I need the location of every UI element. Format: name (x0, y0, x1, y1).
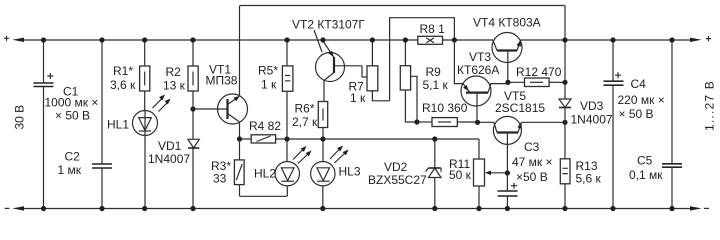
svg-text:5,6 к: 5,6 к (576, 172, 602, 186)
svg-text:13 к: 13 к (163, 79, 186, 93)
node VT5 base junction (475, 120, 480, 125)
node R9 R10 junction (414, 119, 419, 124)
svg-text:HL3: HL3 (339, 165, 361, 179)
node R7 top (370, 37, 375, 42)
wire emitter line y139 (240, 138, 480, 140)
wire top rail left (24, 39, 493, 41)
resistor R1 (110, 40, 150, 111)
capacitor C5 (629, 40, 682, 209)
output minus terminal (690, 206, 709, 210)
svg-text:R6*: R6* (295, 102, 315, 116)
svg-text:HL1: HL1 (107, 118, 129, 132)
node HL1 bottom (142, 206, 147, 211)
svg-text:3,6 к: 3,6 к (110, 78, 136, 92)
node C5 bottom (669, 206, 674, 211)
svg-text:BZX55C27: BZX55C27 (368, 173, 427, 187)
potentiometer R11 (449, 139, 507, 209)
node HL3 bottom (320, 206, 325, 211)
transistor VT1 (193, 6, 248, 140)
node VD2 top (432, 136, 437, 141)
resistor R8 (418, 22, 445, 44)
node C5 top (669, 37, 674, 42)
svg-text:C3: C3 (524, 140, 540, 154)
node VT2 emitter top (320, 37, 325, 42)
resistor R12 (508, 65, 565, 87)
svg-text:R12 470: R12 470 (516, 65, 562, 79)
svg-text:R8 1: R8 1 (420, 22, 446, 36)
svg-text:5,1 к: 5,1 к (423, 78, 449, 92)
node C1 bottom (41, 206, 46, 211)
resistor R4 (249, 119, 281, 143)
svg-text:1 мк: 1 мк (58, 163, 82, 177)
svg-text:1...27 В: 1...27 В (703, 80, 717, 131)
svg-text:33: 33 (213, 172, 227, 186)
node output column rail (562, 37, 567, 42)
zener diode VD2 (368, 139, 441, 209)
node VT1 collector junction (237, 136, 242, 141)
capacitor C4 (604, 40, 665, 209)
wire output column (564, 6, 566, 100)
node R5 top (284, 37, 289, 42)
svg-text:R10 360: R10 360 (422, 101, 468, 115)
node R12 right (562, 80, 567, 85)
node R1 top (142, 37, 147, 42)
node R13 bottom (562, 206, 567, 211)
wire R3 HL2 bottom link (240, 195, 288, 197)
node VD1 bottom (190, 206, 195, 211)
transistor VT4 (473, 16, 541, 83)
svg-text:МП38: МП38 (206, 74, 238, 88)
node HL2 top (284, 136, 289, 141)
svg-text:VT4 КТ803А: VT4 КТ803А (473, 16, 541, 30)
svg-text:1 к: 1 к (350, 91, 366, 105)
svg-text:VT2 КТ3107Г: VT2 КТ3107Г (292, 18, 365, 32)
svg-text:R5*: R5* (258, 64, 278, 78)
wire top link line (240, 5, 565, 7)
LED HL3 (311, 139, 361, 209)
svg-text:C4: C4 (631, 77, 647, 91)
resistor R7 (349, 40, 390, 105)
svg-text:1000 мк ×: 1000 мк × (45, 96, 99, 110)
capacitor C1 (34, 40, 99, 209)
svg-text:1N4007: 1N4007 (148, 152, 190, 166)
capacitor C3 (498, 140, 553, 209)
svg-text:R2: R2 (166, 65, 182, 79)
resistor R13 (560, 159, 601, 209)
transistor VT2 (292, 18, 367, 102)
svg-text:2SC1815: 2SC1815 (495, 101, 545, 115)
capacitor C2 (58, 40, 113, 209)
svg-text:C2: C2 (65, 150, 81, 164)
svg-text:HL2: HL2 (254, 167, 276, 181)
resistor R10 (417, 101, 478, 127)
svg-text:R4 82: R4 82 (249, 119, 281, 133)
svg-text:2,7 к: 2,7 к (292, 115, 318, 129)
input plus terminal (4, 36, 24, 42)
svg-text:VD3: VD3 (580, 99, 604, 113)
input minus terminal (5, 206, 24, 210)
node VT5 emitter right (562, 120, 567, 125)
wire top rail right (521, 39, 692, 41)
resistor R9 (400, 40, 448, 122)
svg-text:×50 В: ×50 В (516, 170, 548, 184)
svg-text:1 к: 1 к (261, 78, 277, 92)
diode VD3 (559, 99, 613, 159)
output plus terminal (690, 36, 711, 42)
svg-text:× 50 В: × 50 В (55, 109, 90, 123)
svg-text:1N4007: 1N4007 (571, 113, 613, 127)
node HL3 top (320, 136, 325, 141)
node C4 top (610, 37, 615, 42)
svg-text:КТ626А: КТ626А (457, 63, 499, 77)
resistor R2 (163, 40, 198, 109)
node C1 top (41, 37, 46, 42)
resistor R3 (211, 139, 244, 196)
svg-text:0,1 мк: 0,1 мк (629, 168, 663, 182)
svg-text:47 мк ×: 47 мк × (512, 155, 553, 169)
node R11 bottom (476, 206, 481, 211)
svg-text:R1*: R1* (113, 64, 133, 78)
svg-text:30 В: 30 В (13, 105, 27, 130)
transistor VT3 (454, 40, 508, 122)
wire bottom rail (24, 208, 690, 210)
node VT4 base R12 (505, 80, 510, 85)
svg-text:C5: C5 (637, 154, 653, 168)
node VD2 bottom (432, 206, 437, 211)
resistor R5 (258, 40, 293, 139)
svg-text:VD2: VD2 (384, 160, 408, 174)
node C2 top (99, 37, 104, 42)
LED HL1 (107, 95, 171, 209)
node VD1 base junction (190, 106, 195, 111)
diode VD1 (148, 109, 199, 209)
svg-text:R9: R9 (426, 65, 442, 79)
svg-text:VD1: VD1 (158, 139, 182, 153)
node C4 bottom (610, 206, 615, 211)
svg-text:220 мк ×: 220 мк × (618, 93, 665, 107)
node R9 top (403, 37, 408, 42)
node R2 top (190, 37, 195, 42)
transistor VT5 (478, 89, 566, 173)
svg-text:50 к: 50 к (449, 168, 472, 182)
node rect right at rail (452, 37, 457, 42)
resistor R6 (292, 102, 328, 140)
svg-text:VT3: VT3 (469, 50, 491, 64)
svg-text:× 50 В: × 50 В (619, 107, 654, 121)
node C3 bottom (505, 206, 510, 211)
node C2 bottom (99, 206, 104, 211)
LED HL2 (254, 139, 312, 196)
node VT5 collector junction (505, 170, 510, 175)
wire feedback rectangle (390, 18, 455, 101)
